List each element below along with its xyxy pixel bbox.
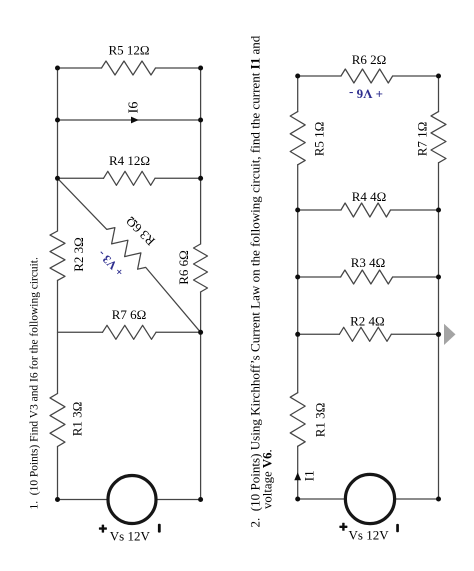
wire: circuit2 R4 branch wire — [298, 209, 439, 211]
node dot circuit2 R4-left — [295, 208, 300, 213]
resistor R3 6ohm diagonal (circuit1) — [58, 178, 201, 332]
node dot circuit1 top-left — [55, 66, 60, 71]
node dot circuit1 top-right — [198, 66, 203, 71]
svg-text:Vs 12V: Vs 12V — [349, 528, 390, 543]
wire: circuit1 left rail middle — [57, 280, 59, 393]
resistor R7 6ohm (circuit1) — [103, 325, 157, 339]
resistor R4 12ohm (circuit1) — [104, 171, 156, 185]
resistor R6 6ohm (circuit1) — [194, 244, 208, 292]
label + terminal circuit2 (drawn cross) — [339, 523, 347, 531]
node dot circuit2 top-right — [436, 74, 441, 79]
wire: circuit2 bottom wire — [298, 498, 439, 500]
resistor R7 1ohm (circuit2) — [431, 112, 446, 163]
node dot circuit2 bottom-right — [436, 497, 441, 502]
minus terminal bar circuit2 source — [396, 524, 399, 532]
svg-text:R4 4Ω: R4 4Ω — [352, 189, 387, 204]
svg-text:1. (10 Points) Find V3 and I6: 1. (10 Points) Find V3 and I6 for the fo… — [29, 257, 41, 509]
svg-text:voltage V6.: voltage V6. — [261, 449, 275, 509]
svg-text:R1 3Ω: R1 3Ω — [70, 402, 85, 437]
wire: circuit1 R4 branch wire — [58, 177, 201, 179]
wire: circuit2 top wire — [298, 75, 439, 77]
node dot circuit2 R3-right — [436, 275, 441, 280]
svg-text:Vs 12V: Vs 12V — [110, 529, 151, 544]
svg-text:R3 6Ω: R3 6Ω — [123, 214, 158, 249]
resistor R1 3ohm (circuit2) — [290, 393, 305, 447]
node dot circuit2 R2-left — [295, 332, 300, 337]
wire: circuit2 right rail upper — [438, 76, 440, 112]
arrowhead I6 current arrow — [131, 117, 139, 124]
svg-text:R6 2Ω: R6 2Ω — [352, 52, 387, 67]
node dot circuit2 R3-left — [295, 275, 300, 280]
wire: circuit2 right rail lower — [438, 163, 440, 499]
wire: circuit1 left rail upper — [57, 68, 59, 231]
svg-text:R4 12Ω: R4 12Ω — [109, 153, 150, 168]
svg-text:R5 12Ω: R5 12Ω — [108, 43, 149, 58]
label + terminal circuit1 (drawn cross) — [99, 525, 107, 533]
voltage source Vs 12V circle (circuit2) — [345, 474, 394, 523]
node dot circuit1 R4-right — [198, 176, 203, 181]
node dot circuit2 R2-right — [436, 332, 441, 337]
svg-text:R1 3Ω: R1 3Ω — [313, 403, 328, 438]
minus terminal bar circuit1 source — [158, 524, 161, 533]
gray annotation arrow at R2 right node (circuit2) — [444, 324, 456, 345]
resistor R2 4ohm (circuit2) — [339, 327, 391, 341]
wire: circuit2 R2 branch wire — [298, 333, 439, 335]
node dot circuit2 R4-right — [436, 208, 441, 213]
node dot circuit1 R4-left — [55, 176, 60, 181]
node dot circuit1 I6-left — [55, 118, 60, 123]
wire: circuit1 left rail lower — [57, 447, 59, 500]
wire: circuit1 right rail lower — [200, 292, 202, 500]
resistor R1 3ohm (circuit1) — [50, 394, 65, 447]
voltage source Vs 12V circle (circuit1) — [108, 476, 156, 524]
svg-text:R7 1Ω: R7 1Ω — [415, 122, 430, 157]
svg-text:+ V6 -: + V6 - — [349, 87, 383, 102]
node dot circuit1 bottom-left — [55, 497, 60, 502]
resistor R5 12ohm (circuit1) — [102, 61, 156, 75]
svg-text:R2 4Ω: R2 4Ω — [350, 314, 385, 329]
svg-text:I6: I6 — [127, 102, 142, 114]
svg-text:I1: I1 — [302, 470, 317, 481]
svg-text:R2 3Ω: R2 3Ω — [71, 237, 86, 272]
wire: circuit1 I6 branch wire — [58, 119, 201, 121]
wire: circuit2 left rail lower — [297, 446, 299, 499]
wire: circuit1 top wire — [58, 67, 201, 69]
node dot circuit2 top-left — [295, 74, 300, 79]
node dot circuit1 I6-right — [198, 118, 203, 123]
wire: circuit1 bottom wire — [58, 499, 201, 501]
svg-text:R3 4Ω: R3 4Ω — [351, 255, 386, 270]
svg-text:R6 6Ω: R6 6Ω — [176, 250, 191, 285]
svg-text:+ V3 -: + V3 - — [95, 247, 127, 279]
wire: circuit1 R7 branch wire — [58, 331, 201, 333]
wire: circuit1 right rail upper — [200, 68, 202, 244]
node dot circuit2 bottom-left — [295, 497, 300, 502]
arrowhead I1 current arrow — [294, 472, 301, 480]
node dot circuit1 R7-right — [198, 330, 203, 335]
node dot circuit1 bottom-right — [198, 497, 203, 502]
wire: circuit2 R3 branch wire — [298, 276, 439, 278]
svg-text:R7 6Ω: R7 6Ω — [112, 307, 147, 322]
resistor R2 3ohm (circuit1) — [50, 231, 65, 280]
resistor R3 4ohm (circuit2) — [341, 270, 393, 284]
resistor R6 2ohm (circuit2) — [341, 69, 393, 83]
wire: circuit2 left rail middle — [297, 165, 299, 393]
wire: circuit2 left rail upper — [297, 76, 299, 112]
resistor R5 1ohm (circuit2) — [290, 112, 305, 165]
resistor R4 4ohm (circuit2) — [341, 203, 391, 217]
svg-text:R5 1Ω: R5 1Ω — [312, 122, 327, 157]
